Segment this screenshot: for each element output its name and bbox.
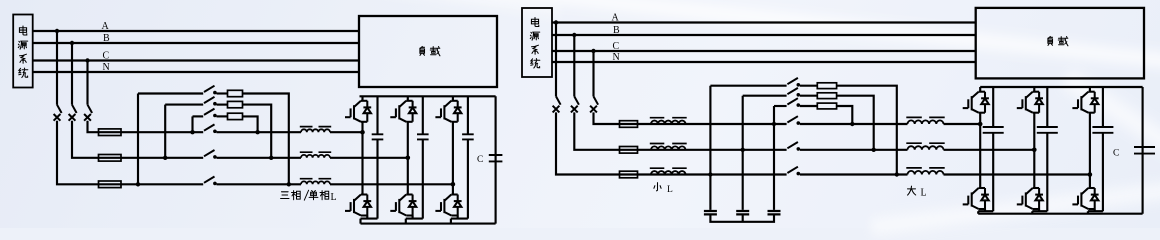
wire row1 right segment (right) xyxy=(800,123,908,125)
wire bypass row1 vertical tap (left) xyxy=(137,94,139,185)
resistor R2 (left soft-start) xyxy=(228,101,243,107)
glyph dan xyxy=(309,191,318,200)
fuse FU5 (right row2) xyxy=(620,147,638,154)
label san-xiang/dan-xiang L (left inductor label) xyxy=(281,190,337,203)
wire bypass row3 to resistor (left) xyxy=(217,115,228,117)
inductor L6 small-L (right row3) xyxy=(650,168,687,174)
inductor L5 small-L (right row2) xyxy=(650,144,687,150)
glyph xiao xyxy=(654,183,661,191)
wire row2 left segment (left) xyxy=(99,157,204,159)
breaker QF1 (left phase A) xyxy=(54,105,62,121)
glyph xiang 2 xyxy=(320,191,329,200)
capacitor C4 filter (right branch1) xyxy=(704,211,717,214)
wire bypass row1 to resistor (left) xyxy=(217,92,228,94)
main switch K4 (right row1) xyxy=(787,116,800,125)
resistor R4 (right soft-start) xyxy=(817,83,836,89)
node leg1 phase tap (left) xyxy=(360,130,365,135)
IGBT V4 bottom (left leg1) xyxy=(345,195,371,216)
node tap C (left) xyxy=(85,58,89,62)
wire leg1 midpoint (right) xyxy=(979,113,981,188)
svg-text:B: B xyxy=(613,25,620,36)
node bypass3 out junction (left) xyxy=(255,130,259,134)
node tap A (right) xyxy=(554,20,558,24)
wire leg2 cap branch upper (left) xyxy=(422,96,424,134)
wire phase B (right) xyxy=(552,34,976,36)
wire bypass row2 to resistor (right) xyxy=(800,95,817,97)
svg-text:B: B xyxy=(103,33,110,44)
wire DC- bottom rail (right bridge) xyxy=(978,213,1142,215)
wire drop C upper (right) xyxy=(592,51,594,96)
wire row3 left segment (right) xyxy=(620,173,787,175)
wire bypass row1 out (right) xyxy=(837,86,897,175)
wire leg2 collector lead (right) xyxy=(1033,87,1035,92)
wire bypass row2 out (left) xyxy=(243,105,272,158)
resistor R5 (right soft-start) xyxy=(817,93,836,99)
wire filter star bus (right) xyxy=(710,215,774,222)
wire row2 left segment (right) xyxy=(620,149,787,151)
main switch K6 (right row3) xyxy=(787,167,800,176)
wire drop A lower (right) xyxy=(556,112,620,174)
wire DC+ top rail (left bridge) xyxy=(360,95,496,97)
wire leg1 cap branch upper (left) xyxy=(376,96,378,134)
wire DC bus right (right bridge) xyxy=(1142,87,1144,214)
capacitor C8 dc-link (right leg2) xyxy=(1037,127,1058,133)
wire leg1 emitter plumbing (right) xyxy=(978,209,993,214)
node tap B (left) xyxy=(70,41,74,45)
wire leg3 collector lead (left) xyxy=(452,96,454,101)
wire leg1 cap branch upper (right) xyxy=(992,87,994,127)
bypass switch S1 (left) xyxy=(204,86,217,95)
node bypass1 out junction (left) xyxy=(287,182,291,186)
main switch K2 (left row2) xyxy=(204,150,217,159)
svg-text:N: N xyxy=(103,62,110,73)
wire drop C upper (left) xyxy=(86,61,88,105)
wire phase B (left) xyxy=(33,42,359,44)
resistor R1 (left soft-start) xyxy=(228,90,243,96)
label xi (right source) xyxy=(532,45,539,54)
IGBT V5 bottom (left leg2) xyxy=(390,195,416,216)
label xi (left source) xyxy=(20,54,27,63)
label tong (left source) xyxy=(19,68,28,77)
wire leg3 midpoint (left) xyxy=(452,122,454,195)
label zai (right load) xyxy=(1058,37,1068,46)
node bypass2-row2 junction (left) xyxy=(163,156,167,160)
capacitor C2 dc-link (left leg2) xyxy=(417,134,429,139)
wire row1 left segment (right) xyxy=(620,123,787,125)
wire DC+ top rail (right bridge) xyxy=(980,86,1142,88)
wire DC- bottom rail (left bridge) xyxy=(361,223,496,225)
breaker QF5 (right phase B) xyxy=(571,96,579,112)
wire row3 right segment (right) xyxy=(800,173,908,175)
wire row3 to bridge (right) xyxy=(944,173,1090,175)
svg-text:C: C xyxy=(1113,149,1119,159)
capacitor C6 filter (right branch3) xyxy=(768,211,781,214)
node branch1-row3 junction (right) xyxy=(708,172,712,176)
label dian (right source) xyxy=(531,18,538,27)
glyph xiang 1 xyxy=(292,191,301,200)
node bypass3-row1 junction (left) xyxy=(190,130,194,134)
wire drop B lower (right) xyxy=(574,112,619,149)
IGBT V11 bottom (right leg2) xyxy=(1017,188,1043,209)
node leg1 phase tap (right) xyxy=(978,122,983,127)
node branch2-row2 junction (right) xyxy=(741,148,745,152)
wire phase A (left) xyxy=(33,30,359,32)
main switch K1 (left row1) xyxy=(204,124,217,133)
capacitor C1 dc-link (left leg1) xyxy=(372,134,384,139)
wire drop C lower (left) xyxy=(88,121,99,133)
label yuan (left source) xyxy=(18,41,27,49)
svg-text:C: C xyxy=(613,41,620,52)
label yuan (right source) xyxy=(530,32,539,40)
wire leg2 cap branch lower (right) xyxy=(1046,133,1048,211)
fuse FU2 (left row2) xyxy=(99,155,122,162)
inductor L1 (left row1) xyxy=(300,127,331,133)
capacitor C9 dc-link (right leg3) xyxy=(1092,127,1113,133)
fuse FU6 (right row3) xyxy=(620,171,638,178)
node leg2 phase tap (right) xyxy=(1032,148,1037,153)
wire filter branch 2 vertical (right) xyxy=(742,96,744,210)
inductor L4 small-L (right row1) xyxy=(650,118,687,124)
power source box 1 (left) xyxy=(13,15,33,88)
bypass switch S4 (right) xyxy=(787,78,800,87)
fuse FU1 (left row1) xyxy=(99,129,122,136)
node bypass4 out junction (right) xyxy=(895,172,899,176)
wire leg2 cap branch upper (right) xyxy=(1046,87,1048,127)
wire row1 right segment (left) xyxy=(217,131,302,133)
wire DC bus right (left bridge) xyxy=(495,96,497,223)
wire leg1 cap branch lower (right) xyxy=(992,133,994,211)
wire neutral N (right) xyxy=(552,61,976,63)
label tong (right source) xyxy=(531,59,540,68)
IGBT V8 top (right leg2) xyxy=(1017,92,1043,113)
wire leg3 cap branch lower (right) xyxy=(1102,133,1104,211)
wire bypass row3 horizontal (left) xyxy=(193,115,204,117)
wire bypass row2 to resistor (left) xyxy=(217,104,228,106)
wire leg3 midpoint (right) xyxy=(1089,113,1091,188)
wire row2 to bridge (right) xyxy=(944,149,1035,151)
inductor L2 (left row2) xyxy=(300,152,331,158)
wire row3 to bridge (left) xyxy=(330,183,453,185)
fuse FU3 (left row3) xyxy=(99,181,122,188)
wire leg3 emitter plumbing (left) xyxy=(451,216,468,224)
wire row2 right segment (left) xyxy=(217,157,302,159)
wire leg2 emitter plumbing (right) xyxy=(1032,209,1047,214)
label dian (left source) xyxy=(19,26,26,35)
wire row3 right segment (left) xyxy=(217,183,302,185)
wire filter branch 3 vertical (right) xyxy=(773,106,775,210)
wire phase C (left) xyxy=(33,59,359,61)
wire bypass row2 horizontal (left) xyxy=(165,104,203,106)
label da L (big inductor) xyxy=(908,186,927,198)
wire bypass row1 horizontal (left) xyxy=(138,92,203,94)
wire row1 to bridge (right) xyxy=(944,123,981,125)
svg-text:A: A xyxy=(612,13,620,24)
wire drop A upper (left) xyxy=(56,31,58,105)
wire phase C (right) xyxy=(552,50,976,52)
wire drop C lower (right) xyxy=(594,112,620,124)
svg-text:L: L xyxy=(331,192,337,203)
main switch K5 (right row2) xyxy=(787,142,800,151)
glyph san xyxy=(281,192,289,199)
node tap C (right) xyxy=(591,49,595,53)
wire leg2 midpoint (left) xyxy=(407,122,409,195)
node leg2 phase tap (left) xyxy=(406,156,411,161)
wire leg2 collector lead (left) xyxy=(407,96,409,101)
IGBT V10 bottom (right leg1) xyxy=(963,188,989,209)
IGBT V12 bottom (right leg3) xyxy=(1072,188,1098,209)
wire leg2 emitter plumbing (left) xyxy=(406,216,423,224)
capacitor C5 filter (right branch2) xyxy=(736,211,749,214)
breaker QF6 (right phase C) xyxy=(590,96,598,112)
wire phase A (right) xyxy=(552,21,976,23)
breaker QF2 (left phase B) xyxy=(69,105,77,121)
label fu (right load) xyxy=(1048,36,1053,45)
svg-text:N: N xyxy=(613,52,620,63)
wire leg2 cap branch lower (left) xyxy=(422,139,424,218)
bypass switch S6 (right) xyxy=(787,98,800,107)
IGBT V3 top (left leg3) xyxy=(435,101,461,122)
wire bypass row3 out (right) xyxy=(837,106,853,124)
wire leg2 midpoint (right) xyxy=(1033,113,1035,188)
wire leg3 emitter plumbing (right) xyxy=(1088,209,1103,214)
svg-text:C: C xyxy=(103,51,110,62)
node tap B (right) xyxy=(572,33,576,37)
wire leg3 cap branch upper (left) xyxy=(467,96,469,134)
wire row1 left segment (left) xyxy=(99,131,204,133)
inductor L7 big-L (right row1) xyxy=(906,117,944,124)
wire bypass row1 to resistor (right) xyxy=(800,85,817,87)
bypass switch S5 (right) xyxy=(787,88,800,97)
svg-text:L: L xyxy=(667,185,673,195)
capacitor C main (left bus) xyxy=(489,155,503,161)
wire leg1 collector lead (right) xyxy=(979,87,981,92)
inductor L9 big-L (right row3) xyxy=(906,168,944,175)
IGBT V2 top (left leg2) xyxy=(390,101,416,122)
load box 2 (right) xyxy=(976,8,1144,79)
capacitor C3 dc-link (left leg3) xyxy=(462,134,474,139)
node leg3 phase tap (right) xyxy=(1088,172,1093,177)
capacitor C main (right bus) xyxy=(1134,147,1155,154)
label xiao L (small inductor) xyxy=(654,183,673,195)
node tap A (left) xyxy=(55,29,59,33)
wire bypass row2 out (right) xyxy=(837,96,874,150)
wire bypass row2 vertical tap (left) xyxy=(164,105,166,158)
wire row2 to bridge (left) xyxy=(330,157,408,159)
wire filter branch 1 vertical (right) xyxy=(709,86,711,210)
wire drop A lower (left) xyxy=(57,121,99,185)
wire drop B lower (left) xyxy=(72,121,99,158)
wire leg1 midpoint (left) xyxy=(361,122,363,195)
bypass switch S3 (left) xyxy=(204,109,217,118)
wire leg1 collector lead (left) xyxy=(361,96,363,101)
wire bypass row3 to resistor (right) xyxy=(800,105,817,107)
wire drop B upper (right) xyxy=(573,35,575,96)
breaker QF4 (right phase A) xyxy=(553,96,561,112)
load box 1 (left) xyxy=(359,16,497,87)
IGBT V1 top (left leg1) xyxy=(345,101,371,122)
breaker QF3 (left phase C) xyxy=(84,105,92,121)
bypass switch S2 (left) xyxy=(204,97,217,106)
node branch3-row1 junction (right) xyxy=(772,122,776,126)
label zai (left load) xyxy=(430,47,440,56)
node bypass5 out junction (right) xyxy=(872,148,876,152)
capacitor C7 dc-link (right leg1) xyxy=(983,127,1004,133)
svg-text:C: C xyxy=(477,155,483,165)
wire drop B upper (left) xyxy=(71,43,73,105)
wire leg3 cap branch upper (right) xyxy=(1102,87,1104,127)
wire drop A upper (right) xyxy=(555,23,557,97)
wire bypass row2 horizontal (right) xyxy=(743,95,787,97)
main switch K3 (left row3) xyxy=(204,177,217,186)
glyph da xyxy=(908,186,916,195)
inductor L8 big-L (right row2) xyxy=(906,143,944,150)
wire bypass row3 horizontal (right) xyxy=(774,105,787,107)
IGBT V7 top (right leg1) xyxy=(963,92,989,113)
node bypass1-row3 junction (left) xyxy=(136,182,140,186)
wire bypass row3 vertical tap (left) xyxy=(191,116,193,132)
IGBT V9 top (right leg3) xyxy=(1072,92,1098,113)
wire bypass row1 out (left) xyxy=(243,94,289,185)
node bypass2 out junction (left) xyxy=(269,156,273,160)
power source box 2 (right) xyxy=(522,8,552,77)
glyph slash xyxy=(304,190,308,200)
resistor R6 (right soft-start) xyxy=(817,103,836,109)
IGBT V6 bottom (left leg3) xyxy=(435,195,461,216)
wire leg1 emitter plumbing (left) xyxy=(361,216,378,224)
wire neutral N (left) xyxy=(33,71,359,73)
node leg3 phase tap (left) xyxy=(451,182,456,187)
fuse FU4 (right row1) xyxy=(620,121,638,128)
wire bypass row1 horizontal (right) xyxy=(710,85,786,87)
svg-text:L: L xyxy=(921,188,927,199)
label fu (left load) xyxy=(420,46,425,55)
wire row2 right segment (right) xyxy=(800,149,908,151)
node bypass6 out junction (right) xyxy=(850,122,854,126)
svg-text:A: A xyxy=(102,21,110,32)
wire row3 left segment (left) xyxy=(99,183,204,185)
wire row1 to bridge (left) xyxy=(330,131,363,133)
wire bypass row3 out (left) xyxy=(243,116,258,132)
inductor L3 (left row3) xyxy=(300,179,331,185)
wire leg1 cap branch lower (left) xyxy=(376,139,378,218)
wire leg3 collector lead (right) xyxy=(1089,87,1091,92)
wire leg3 cap branch lower (left) xyxy=(467,139,469,218)
resistor R3 (left soft-start) xyxy=(228,113,243,119)
